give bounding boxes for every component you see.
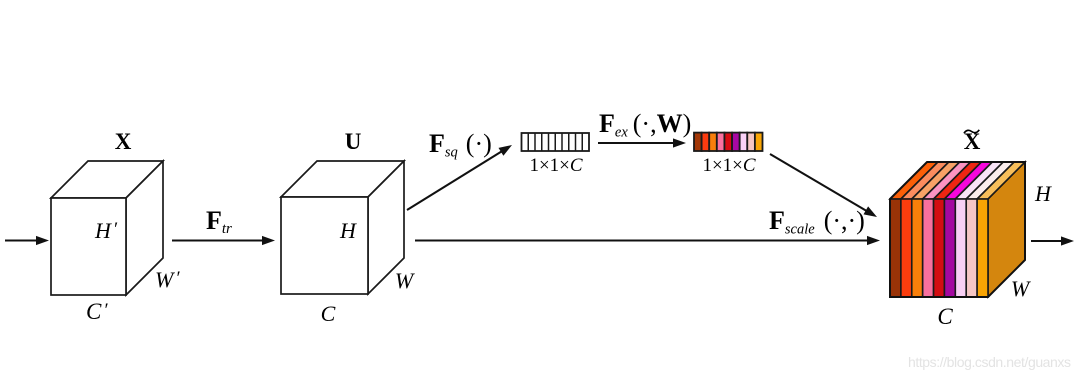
svg-text:Ftr: Ftr (206, 206, 232, 237)
svg-text:Fsq(·): Fsq(·) (429, 129, 492, 161)
svg-text:W: W (395, 268, 415, 293)
svg-text:Fex(·,W): Fex(·,W) (599, 109, 691, 141)
channel weights 1x1xC (colored bar) (694, 133, 763, 151)
tensor U (middle cube) (281, 161, 404, 294)
svg-text:Fscale(·,·): Fscale(·,·) (769, 206, 865, 238)
wire: scale arrow from weights to X~ (770, 154, 869, 212)
svg-text:H: H (1034, 181, 1052, 206)
squeezed descriptor 1x1xC (white bar) (522, 133, 590, 151)
svg-text:1×1×C: 1×1×C (529, 155, 582, 176)
svg-text:C′: C′ (86, 299, 108, 324)
wire: input arrow into X (5, 239, 39, 241)
svg-text:U: U (345, 129, 362, 154)
svg-text:C: C (937, 304, 953, 329)
wire: F_ex arrow (excitation) (598, 142, 676, 144)
wire: output arrow (1031, 240, 1064, 242)
svg-text:W: W (1011, 276, 1031, 301)
wire: skip arrow U to F_scale (415, 239, 870, 241)
svg-text:H′: H′ (94, 218, 118, 243)
wire: F_sq arrow (squeeze) (407, 150, 504, 210)
svg-text:C: C (321, 301, 336, 326)
wire: F_tr arrow (172, 239, 265, 241)
tensor X (left cube) (51, 161, 163, 295)
svg-text:H: H (339, 218, 357, 243)
svg-text:X: X (115, 129, 132, 154)
recalibrated tensor X~ (striped cube) (890, 162, 1025, 297)
svg-text:https://blog.csdn.net/guanxs: https://blog.csdn.net/guanxs (908, 354, 1071, 370)
svg-text:1×1×C: 1×1×C (702, 155, 755, 176)
svg-text:W′: W′ (155, 267, 180, 292)
